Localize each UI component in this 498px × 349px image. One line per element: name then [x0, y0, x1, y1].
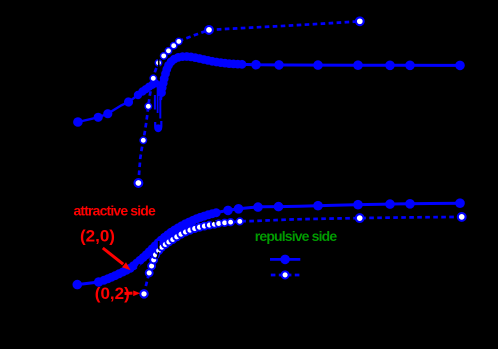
upper solid curve: sparse plateau markers — [251, 60, 465, 70]
upper dashed curve (0,2) — [138, 21, 359, 183]
svg-text:(2,0): (2,0) — [80, 226, 115, 245]
svg-text:attractive side: attractive side — [74, 203, 156, 219]
arrow from (2,0) label to solid curve — [103, 248, 131, 270]
legend: solid line sample — [270, 258, 300, 261]
lower dashed curve: dense open markers on arc — [146, 221, 218, 277]
black overlay: vertical bar through lower band — [158, 241, 160, 249]
marker at bottom of U hook — [154, 124, 162, 132]
upper solid curve (2,0): left rising segment — [78, 83, 155, 122]
lower dashed curve: big open markers on plateau — [356, 213, 466, 222]
black overlay: slash between arc pearls — [157, 252, 159, 259]
upper dashed curve: big open markers — [135, 17, 364, 187]
upper solid curve: thin descending tail strand s2 — [155, 83, 157, 113]
legend: filled marker — [280, 255, 290, 265]
black overlay: notch in band near arrow — [138, 264, 140, 268]
legend: open marker — [282, 271, 289, 278]
upper dashed curve: small open markers — [140, 38, 182, 143]
lower solid curve: left markers — [73, 277, 104, 289]
lower solid curve: sparse plateau markers — [223, 198, 465, 215]
svg-text:repulsive side: repulsive side — [255, 228, 338, 244]
upper solid curve (2,0): left segment data markers — [73, 79, 159, 127]
open marker at lower end of (0,2) curve — [140, 290, 147, 297]
lower dashed curve (0,2): repulsive-side branch — [144, 217, 462, 294]
upper solid curve: dense markers on rise/plateau — [157, 52, 246, 97]
upper solid curve (2,0): steep rise and plateau — [161, 57, 463, 101]
black overlay: X on lower solid band — [212, 219, 216, 222]
lower dashed curve: mid open markers — [215, 218, 243, 227]
arrow from (0,2) label to open marker — [125, 291, 141, 297]
lower solid curve: dense markers on rise — [100, 208, 221, 285]
upper solid curve: short descending strand s1 — [154, 95, 156, 110]
upper solid curve: U-shaped hook at resonance bottom — [155, 121, 161, 130]
legend: dashed line sample — [271, 274, 301, 277]
upper solid curve: descending strand s3 — [159, 97, 161, 119]
lower solid curve (2,0): attractive-side branch — [77, 203, 463, 284]
black overlay: slash under arc pearls — [165, 249, 167, 253]
black dashed overlay crossing open marker — [158, 58, 160, 68]
